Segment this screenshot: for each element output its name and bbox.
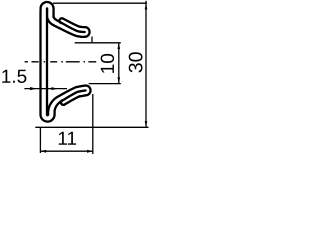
text 10 (rotated) [101,54,114,73]
dim line 30 vertical [145,1,147,128]
text 30 (rotated) [129,52,143,72]
top tab fold-tip arc [84,27,89,37]
profile surface line A (arm lower / stem right / U inner) [47,8,85,115]
arrow 11 left (left-pointing) [40,150,46,153]
arrow 30 top (up) [145,3,148,9]
arrow 10 top (up) [118,43,121,49]
arrow 10 bottom (down) [118,77,121,83]
dim line 11 horizontal [40,150,92,152]
arrow 1.5 left (right-pointing) [30,87,37,90]
bottom tab fold-tip arc [86,86,91,96]
dim 1.5 line [24,88,67,90]
dim 10 top extension [75,42,121,44]
bottom tab folded-ply outer surface [65,95,87,104]
stub from top arm tip [91,37,93,43]
arrow 11 right (right-pointing) [87,150,93,153]
dim line 10 vertical [118,43,120,84]
bottom extension line [35,126,148,128]
profile surface line B (arm contact / stem left / U outer) [41,2,86,122]
bottom tab end cap [61,100,65,105]
text 1.5 [2,70,26,83]
clip profile (sheet-metal spring clip cross-section) [41,2,91,122]
top extension line [53,2,147,4]
dim 10 bottom extension [89,83,121,85]
text 11 [59,132,76,145]
arrow 30 bottom (down) [145,121,148,127]
dim 11 left extension [39,127,41,153]
dim 11 right extension [92,94,94,154]
top tab end cap [60,18,64,23]
arrow 1.5 right (right-pointing at arm) [51,87,57,90]
top tab folded-ply outer surface [63,19,84,28]
centerline (dash-dot) [25,61,97,63]
